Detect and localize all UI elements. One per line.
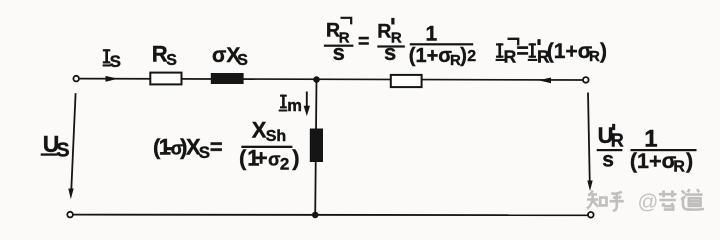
reactance σX_S (211, 73, 244, 84)
node: top junction (313, 76, 320, 83)
wire: top conductor (80, 79, 583, 80)
svg-text:2: 2 (280, 154, 289, 173)
svg-text:R: R (673, 159, 685, 176)
resistor R_R/s (391, 75, 422, 87)
svg-text:): ) (292, 146, 299, 171)
svg-text:): ) (686, 149, 693, 173)
voltage arrow U_R'/s (587, 93, 592, 192)
svg-text:R: R (504, 46, 517, 66)
svg-text:R: R (611, 130, 624, 150)
svg-text:=: = (517, 40, 529, 63)
magnetizing reactance (1-σ)X_S block (310, 129, 323, 163)
label (1-σ)X_S = X_Sh/(1+σ2) (153, 117, 300, 173)
svg-text:S: S (56, 140, 69, 162)
svg-text:s: s (333, 40, 345, 65)
svg-text:X: X (252, 117, 267, 142)
terminal: stator top (73, 76, 79, 82)
svg-text:S: S (110, 52, 121, 71)
svg-text:=: = (358, 31, 369, 53)
current arrow I_S (106, 76, 119, 82)
resistor R_S (150, 73, 181, 85)
svg-text:S: S (166, 52, 177, 69)
label σX_S (212, 44, 248, 69)
current arrow I_R (539, 78, 552, 84)
terminal: rotor top (583, 77, 589, 83)
svg-text:+: + (255, 146, 268, 171)
voltage arrow U_S (68, 93, 75, 199)
label U_R'/s * 1/(1+σR) (597, 123, 697, 176)
label U_S (41, 131, 70, 162)
svg-text:σX: σX (212, 44, 240, 67)
svg-text:R: R (589, 48, 600, 65)
label R_R/s = R_R'/s * 1/(1+σR)^2 (324, 18, 476, 69)
wire: magnetizing branch (315, 80, 316, 215)
label I_S (103, 49, 121, 71)
svg-text:(1+σ: (1+σ (547, 40, 592, 63)
wire: bottom conductor (73, 214, 587, 217)
label R_S (152, 42, 178, 69)
watermark 知乎@菩道 (587, 189, 704, 214)
node: bottom junction (312, 212, 319, 219)
svg-text:s: s (602, 148, 614, 171)
label I_R = I_R'(1+σR) (496, 39, 607, 67)
current arrow I_m (304, 92, 310, 117)
svg-text:R: R (377, 20, 391, 42)
svg-text:2: 2 (467, 48, 476, 65)
svg-text:1: 1 (426, 22, 438, 45)
svg-text:(1-: (1- (153, 134, 173, 159)
svg-text:s: s (384, 40, 396, 65)
svg-text:S: S (237, 52, 248, 69)
svg-text:(1+σ: (1+σ (409, 45, 452, 67)
svg-text:m: m (287, 97, 302, 115)
svg-text:@: @ (638, 191, 659, 214)
svg-text:Sh: Sh (266, 128, 286, 145)
terminal: rotor bottom (588, 212, 594, 218)
svg-text:=: = (210, 134, 223, 159)
svg-text:σ: σ (268, 150, 280, 170)
svg-text:(1+σ: (1+σ (630, 149, 677, 173)
terminal: stator bottom (67, 212, 73, 218)
svg-text:): ) (600, 40, 607, 63)
svg-text:): ) (460, 45, 467, 67)
label I_m (279, 95, 302, 115)
svg-text:S: S (199, 143, 210, 162)
